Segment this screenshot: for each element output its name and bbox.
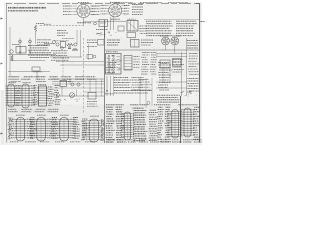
wire mid-left drop — [36, 71, 38, 79]
text right of T1 row 1 — [140, 25, 148, 27]
wire left vertical 1 — [19, 38, 21, 55]
text rows below ladders row1 — [8, 108, 58, 110]
resistor R5 — [67, 43, 74, 45]
note text right of V2 row 5 — [132, 14, 143, 16]
wide note row 2 — [157, 97, 178, 99]
wire drop x152 — [151, 78, 153, 106]
wide note row 3 — [157, 99, 179, 101]
text right of T1 row 2 — [140, 28, 148, 30]
top-right label column B row 1 — [176, 20, 196, 22]
title text line 1 — [8, 7, 46, 9]
tube V2 pin label left 3 — [101, 10, 106, 12]
tube V2 pin lead right 1 — [122, 5, 126, 7]
mid-left value label row 1 — [28, 45, 49, 47]
tube socket chart SK9 — [167, 110, 182, 139]
switch S1 inner specks — [107, 55, 122, 74]
component label bottom — [33, 71, 42, 73]
tube V1 pin lead right 1 — [90, 5, 94, 7]
bottom row small text — [10, 141, 96, 143]
text rows mid-right top row 1 — [107, 39, 120, 41]
tube V2 pin label right 4 — [124, 13, 130, 15]
border corner tick — [196, 3, 200, 5]
wire V3 up — [165, 45, 167, 50]
pin text column between SK5-SK6 — [51, 118, 58, 139]
wire long horizontal y50 — [105, 49, 200, 51]
mid cluster labels row 2 — [53, 52, 67, 54]
wire V4 down — [174, 45, 176, 54]
right margin label row 2 — [187, 42, 198, 44]
transformer T1 label — [128, 18, 136, 20]
top-right label column A row 5 — [146, 30, 172, 32]
wide note row 4 — [157, 101, 179, 103]
terminal T2 — [71, 83, 74, 86]
speck cluster lower middle — [60, 98, 80, 102]
tube V2 label above — [110, 1, 120, 3]
socket chart SK1 title — [8, 82, 16, 84]
top-right label column A row 6 — [146, 32, 172, 34]
tube V1 pin lead right 4 — [90, 13, 94, 15]
socket chart SK4 title — [16, 114, 25, 116]
text rows right of divider row 1 — [87, 39, 97, 41]
component block A inner — [100, 22, 106, 24]
terminal ring bottom mid — [147, 102, 150, 105]
top-right label column B row 5 — [176, 30, 193, 32]
wire lower horizontal 1 — [52, 78, 104, 80]
tube V1 pin label right 2 — [92, 8, 100, 10]
mid cluster labels row 4 — [53, 57, 69, 59]
switch S1 label — [106, 51, 118, 53]
tube socket chart SK2 — [15, 84, 35, 108]
header text band left row 2 — [9, 78, 97, 80]
terminal strip SK3 labels — [48, 87, 55, 105]
relay K1 inner — [20, 47, 22, 54]
band y62-76 rows — [158, 63, 172, 76]
far right label row 2 — [188, 80, 199, 82]
arrowhead wire 2 — [29, 52, 31, 54]
tube V3 — [162, 37, 170, 45]
text right of X3 row 3 — [141, 44, 151, 46]
wire lower horizontal 3 — [56, 95, 104, 97]
chart header rows — [106, 104, 197, 106]
ink bleed wash mid band — [104, 38, 200, 76]
header text band left row 3 — [10, 81, 73, 83]
tube V1 pin lead left 2 — [73, 8, 77, 10]
pin text column left of SK4 — [8, 118, 13, 139]
tube V1 label above — [78, 2, 89, 4]
lower mid-right label row 3 — [114, 82, 130, 84]
note text right of V2 row 2 — [132, 6, 143, 8]
far right label row 4 — [188, 85, 199, 87]
switch S1 contacts col 2 — [113, 55, 115, 73]
transformer T1 — [127, 21, 138, 32]
switch S1 contacts col 1 — [108, 55, 110, 73]
scan tint — [1, 90, 5, 145]
right margin lower rows — [188, 54, 199, 75]
lower mid-right label row 1 — [114, 77, 129, 79]
block mid B2 — [87, 55, 93, 59]
tube V3 label — [160, 35, 169, 37]
pin text column between SK2-SK3 — [33, 86, 39, 105]
bottom-right footer rows — [106, 139, 202, 141]
wire lower drop 1 — [61, 87, 63, 97]
text block mid-left top row 1 — [37, 39, 51, 41]
table rule x180.5 — [180, 96, 182, 143]
socket chart SK5 title — [37, 114, 46, 116]
wire mid dashed drop — [62, 58, 64, 77]
wire top-right horizontal — [144, 19, 199, 21]
terminal mid M5 — [61, 47, 64, 50]
top-right label column A row 3 — [146, 25, 173, 27]
wire arrows vertical 1 — [106, 76, 108, 96]
mid-left value label row 4 — [30, 52, 51, 54]
margin arrow left upper — [1, 18, 4, 20]
text right of X3 row 2 — [141, 42, 153, 44]
text right of X3 row 1 — [141, 39, 153, 41]
wire lower horizontal 2 — [52, 81, 104, 83]
text rows right of divider row 2 — [87, 42, 97, 44]
tube socket chart SK8 — [121, 112, 134, 140]
note text right of V2 row 4 — [132, 11, 143, 13]
bottom-right footer rows 2 — [106, 141, 202, 143]
terminal mid M3 — [74, 43, 77, 46]
wire drop x146 — [145, 78, 147, 108]
wire lower vdrop c — [101, 79, 103, 96]
terminal T3 — [77, 83, 80, 86]
transformer T1 inner — [128, 21, 137, 32]
top-right label column A row 2 — [146, 23, 172, 25]
text right of T1 row 3 — [140, 30, 147, 32]
wire right drop 1 — [162, 68, 164, 82]
arrowhead wire 1 — [19, 52, 21, 54]
wire R1 bottom — [35, 32, 37, 45]
top-right label column B row 3 — [176, 25, 194, 27]
speck cluster below V2 — [96, 31, 116, 36]
tube V1 label below — [77, 22, 91, 24]
pilot lamp ring 1 — [19, 40, 22, 43]
top-right label column A row 4 — [146, 27, 169, 29]
note text right of V2 row 1 — [132, 4, 143, 6]
tube V1 pin label left 1 — [63, 5, 72, 7]
wire arrows vertical 3 — [113, 76, 115, 96]
terminal T4 — [57, 94, 60, 97]
mid cluster labels row 00 — [62, 37, 74, 39]
wire right vertical x186 — [186, 38, 188, 96]
tube socket chart SK6 — [53, 118, 76, 142]
terminal strip SK3 rungs — [37, 88, 48, 103]
mid-left value label row 6 — [30, 57, 49, 59]
text block mid-left top row 3 — [37, 44, 50, 46]
top-right label column A row 7 — [146, 35, 172, 37]
ink bleed wash left block — [6, 76, 58, 113]
terminal mid M4 — [93, 55, 96, 58]
top edge annotation b — [140, 2, 162, 4]
wire right horizontal 1 — [156, 53, 187, 55]
text cluster right-mid — [173, 60, 184, 73]
pin text column between SK6-SK7 — [73, 118, 80, 139]
tube socket chart SK7 — [83, 119, 104, 142]
arrowhead 1 — [106, 90, 108, 92]
wire right drop 2 — [169, 68, 171, 82]
wire mid horizontal 2 — [56, 61, 104, 63]
wire mid horizontal 3 — [60, 64, 104, 66]
component block A — [99, 20, 108, 27]
tube V2 pin label right 1 — [124, 5, 130, 7]
wire mid-left bottom — [10, 60, 45, 62]
socket chart SK2 title — [23, 82, 31, 84]
mid-left value label row 2 — [30, 47, 48, 49]
lower band rows A — [106, 63, 116, 73]
wire T1 down — [130, 38, 132, 39]
text rows mid-right top row 3 — [107, 44, 118, 46]
tube V1 — [77, 4, 90, 17]
switch S2 body — [124, 56, 132, 71]
voltage text column G — [193, 107, 200, 139]
far right label row 5 — [188, 88, 199, 90]
tube V4 — [171, 37, 179, 45]
wire lower drop 3 — [76, 90, 78, 97]
junction cluster right — [181, 91, 192, 97]
title text line 2 — [8, 10, 38, 12]
block mid B1 — [61, 42, 66, 48]
switch S2 labels — [134, 57, 140, 68]
text block V1 lower-left row 3 — [57, 35, 65, 37]
lower mid-right long row 1 — [114, 90, 152, 92]
tube V2 pin lead right 2 — [122, 7, 126, 9]
wire lower right horizontal — [156, 81, 187, 83]
ink bleed wash bottom — [6, 105, 200, 144]
pin text column between SK4-SK5 — [29, 118, 36, 139]
tube V1 pin lead left 3 — [73, 11, 77, 13]
tube V1 pin lead left 4 — [73, 13, 77, 15]
top-right label column B row 6 — [176, 32, 195, 34]
terminal strip SK3 body — [39, 86, 47, 106]
voltage text column C — [133, 108, 148, 141]
tube V1 pin label right 3 — [92, 11, 100, 13]
border frame left — [6, 4, 8, 143]
pin text column right of SK7 — [100, 120, 105, 141]
component at bottom wire — [32, 67, 40, 71]
socket chart SK7 title — [90, 115, 99, 117]
lower mid-right label row 5 — [114, 87, 130, 89]
voltage text column D — [149, 110, 159, 140]
tube V2 pin label left 1 — [101, 5, 106, 7]
block X3 — [131, 40, 140, 48]
right margin label row 4 — [187, 47, 198, 49]
wire dashed to tube V1 — [40, 25, 84, 27]
small rows x138-156 — [138, 80, 152, 90]
component labels row below V2 — [96, 29, 108, 31]
block X6 — [173, 59, 182, 67]
block X3 inner — [134, 40, 136, 48]
border frame top — [6, 3, 200, 5]
wire mid right vert — [88, 44, 90, 60]
relay K1 — [16, 47, 26, 54]
top edge annotation c — [168, 2, 188, 4]
text rows far side 2 — [150, 53, 157, 75]
wire mid-left horizontal 71 — [8, 71, 50, 73]
wire left bus x10 — [9, 27, 11, 76]
wire drop x140 — [139, 78, 141, 104]
tube V1 pin label right 1 — [92, 5, 100, 7]
text rows mid-right extra — [131, 78, 143, 90]
mid cluster labels row 1 — [51, 50, 68, 52]
block X6 label — [173, 61, 179, 63]
wire tube V1 bottom bus — [84, 20, 97, 22]
lower mid-right long row 2 — [114, 92, 148, 94]
wire mid vertical drop 2 — [80, 30, 82, 57]
scan noise speckle — [7, 4, 200, 142]
tube V1 pin lead left 1 — [73, 5, 77, 7]
wire bus below V2 — [96, 20, 126, 22]
tube V2 pin label right 2 — [124, 7, 130, 9]
tube V2 pin lead left 1 — [106, 5, 109, 7]
potentiometer P1 — [70, 93, 75, 98]
heater lead 1 — [110, 17, 112, 30]
header text band left row 1 — [9, 76, 96, 78]
wire left vertical 2 — [29, 38, 31, 55]
wire bus mid-left — [8, 54, 56, 56]
capacitor C1 label — [44, 23, 51, 25]
tube V4 label — [172, 35, 181, 37]
mid right bits — [87, 46, 97, 48]
wire lower right horizontal 2 — [156, 87, 187, 89]
mid-left value label row 5 — [28, 54, 51, 56]
far right label row 6 — [188, 90, 199, 92]
tube V2 pin lead left 2 — [106, 7, 109, 9]
top-right label column A row 1 — [146, 20, 171, 22]
tube V2 — [109, 4, 122, 17]
voltage text column E — [157, 107, 164, 142]
block X5 labels — [87, 102, 98, 107]
resistor R1 label — [36, 23, 44, 25]
tube V1 pin lead right 2 — [90, 8, 94, 10]
mid-left extra row a — [44, 42, 54, 44]
tube V2 pin label left 2 — [101, 7, 106, 9]
lower mid-right label row 2 — [114, 79, 132, 81]
tube V1 pin label left 3 — [63, 11, 72, 13]
wire lower horizontal 5 — [58, 87, 104, 89]
right margin label row 1 — [187, 40, 198, 42]
terminal X1 — [94, 22, 97, 25]
wire lower h y92 — [84, 91, 104, 93]
note row left 1 — [105, 93, 113, 95]
tube V1 pin lead right 3 — [90, 11, 94, 13]
text block V1 lower-left row 1 — [57, 30, 66, 32]
mid cluster labels row 0 — [54, 40, 69, 42]
wire lower drop 2 — [69, 79, 71, 84]
component block C — [118, 26, 124, 31]
tube V2 pin lead left 4 — [106, 13, 109, 15]
socket chart SK6 title — [60, 114, 69, 116]
wire lower vdrop b — [95, 79, 97, 93]
wire mid horizontal 1 — [50, 56, 82, 58]
wire V2 cluster vertical 2 — [104, 27, 106, 39]
terminal mid M2 — [56, 43, 59, 46]
block X2 — [98, 40, 105, 46]
junction box J1 — [60, 81, 67, 87]
voltage text column A — [106, 107, 115, 142]
right margin note — [201, 21, 206, 23]
text rows below ladders row1 b — [8, 111, 58, 113]
far right label row 3 — [188, 83, 199, 85]
top-right label column B row 7 — [176, 35, 193, 37]
note text right of V2 row 3 — [132, 9, 143, 11]
paper background — [0, 0, 206, 150]
right margin label row 3 — [187, 45, 198, 47]
tube V2 pin lead right 4 — [122, 13, 126, 15]
bus spine vertical — [104, 20, 106, 143]
text rows far side — [141, 53, 150, 75]
wire lower horizontal 4 — [52, 83, 104, 85]
voltage text column B — [116, 107, 126, 142]
socket chart SK3 title — [38, 84, 46, 86]
margin arrow left mid — [1, 63, 4, 65]
section divider dashed — [83, 38, 85, 114]
wire right drop 3 — [181, 52, 183, 96]
pin text column between SK6-SK7 b — [81, 119, 88, 140]
tube V1 pin label left 2 — [63, 8, 72, 10]
switch S1 body — [106, 54, 122, 75]
tube V2 label below — [111, 18, 120, 20]
pin text column right of SK3 — [54, 86, 61, 105]
wire mid vertical drop 1 — [76, 30, 78, 44]
border frame right — [199, 4, 201, 143]
top edge annotation a — [115, 2, 133, 4]
right band extra rows — [158, 78, 170, 91]
lower mid-right label row 4 — [114, 84, 129, 86]
voltage text column F — [165, 107, 172, 142]
top-right label column B row 4 — [176, 27, 193, 29]
resistor R3 — [11, 55, 13, 61]
tube V2 pin label right 3 — [124, 10, 130, 12]
heater lead 2 — [113, 17, 115, 30]
mid-left value label row 3 — [28, 49, 49, 51]
pilot lamp ring 2 — [29, 40, 32, 43]
text block mid-left top row 2 — [37, 41, 49, 43]
tube socket chart SK1 — [6, 84, 21, 107]
tube V2 pin lead left 3 — [106, 10, 109, 12]
block X4 — [160, 60, 170, 68]
text rows mid-right top row 2 — [107, 42, 120, 44]
block X4 label — [161, 63, 169, 65]
far right label row 1 — [188, 78, 199, 80]
tube socket chart SK10 — [180, 108, 194, 137]
text right of T1 row 4 — [140, 33, 147, 35]
terminal left A — [10, 50, 14, 54]
wire right horizontal 2 — [156, 56, 187, 58]
tube V1 pin label left 4 — [63, 13, 72, 15]
switch S2 rungs — [124, 58, 132, 69]
margin arrow left lower — [1, 133, 4, 135]
wide note row 1 — [157, 94, 180, 96]
top-right label column B row 2 — [176, 23, 197, 25]
mid cluster labels row 5 — [51, 59, 69, 61]
resistor R1 — [34, 25, 36, 32]
wire lower vdrop a — [89, 79, 91, 93]
text block V1 lower-left row 2 — [57, 32, 68, 34]
mid-left extra row b — [12, 44, 19, 46]
capacitor C6 — [68, 47, 71, 49]
tube socket chart SK5 — [30, 118, 53, 142]
block X5 — [88, 93, 96, 100]
terminal mid M1 — [52, 40, 55, 43]
wire arrows vertical 2 — [110, 76, 112, 96]
switch S1 inner ticks — [117, 57, 121, 71]
tube V2 pin lead right 3 — [122, 10, 126, 12]
mid cluster labels row 3 — [51, 55, 67, 57]
tube V1 pin label right 4 — [92, 13, 100, 15]
component block D — [127, 33, 136, 38]
